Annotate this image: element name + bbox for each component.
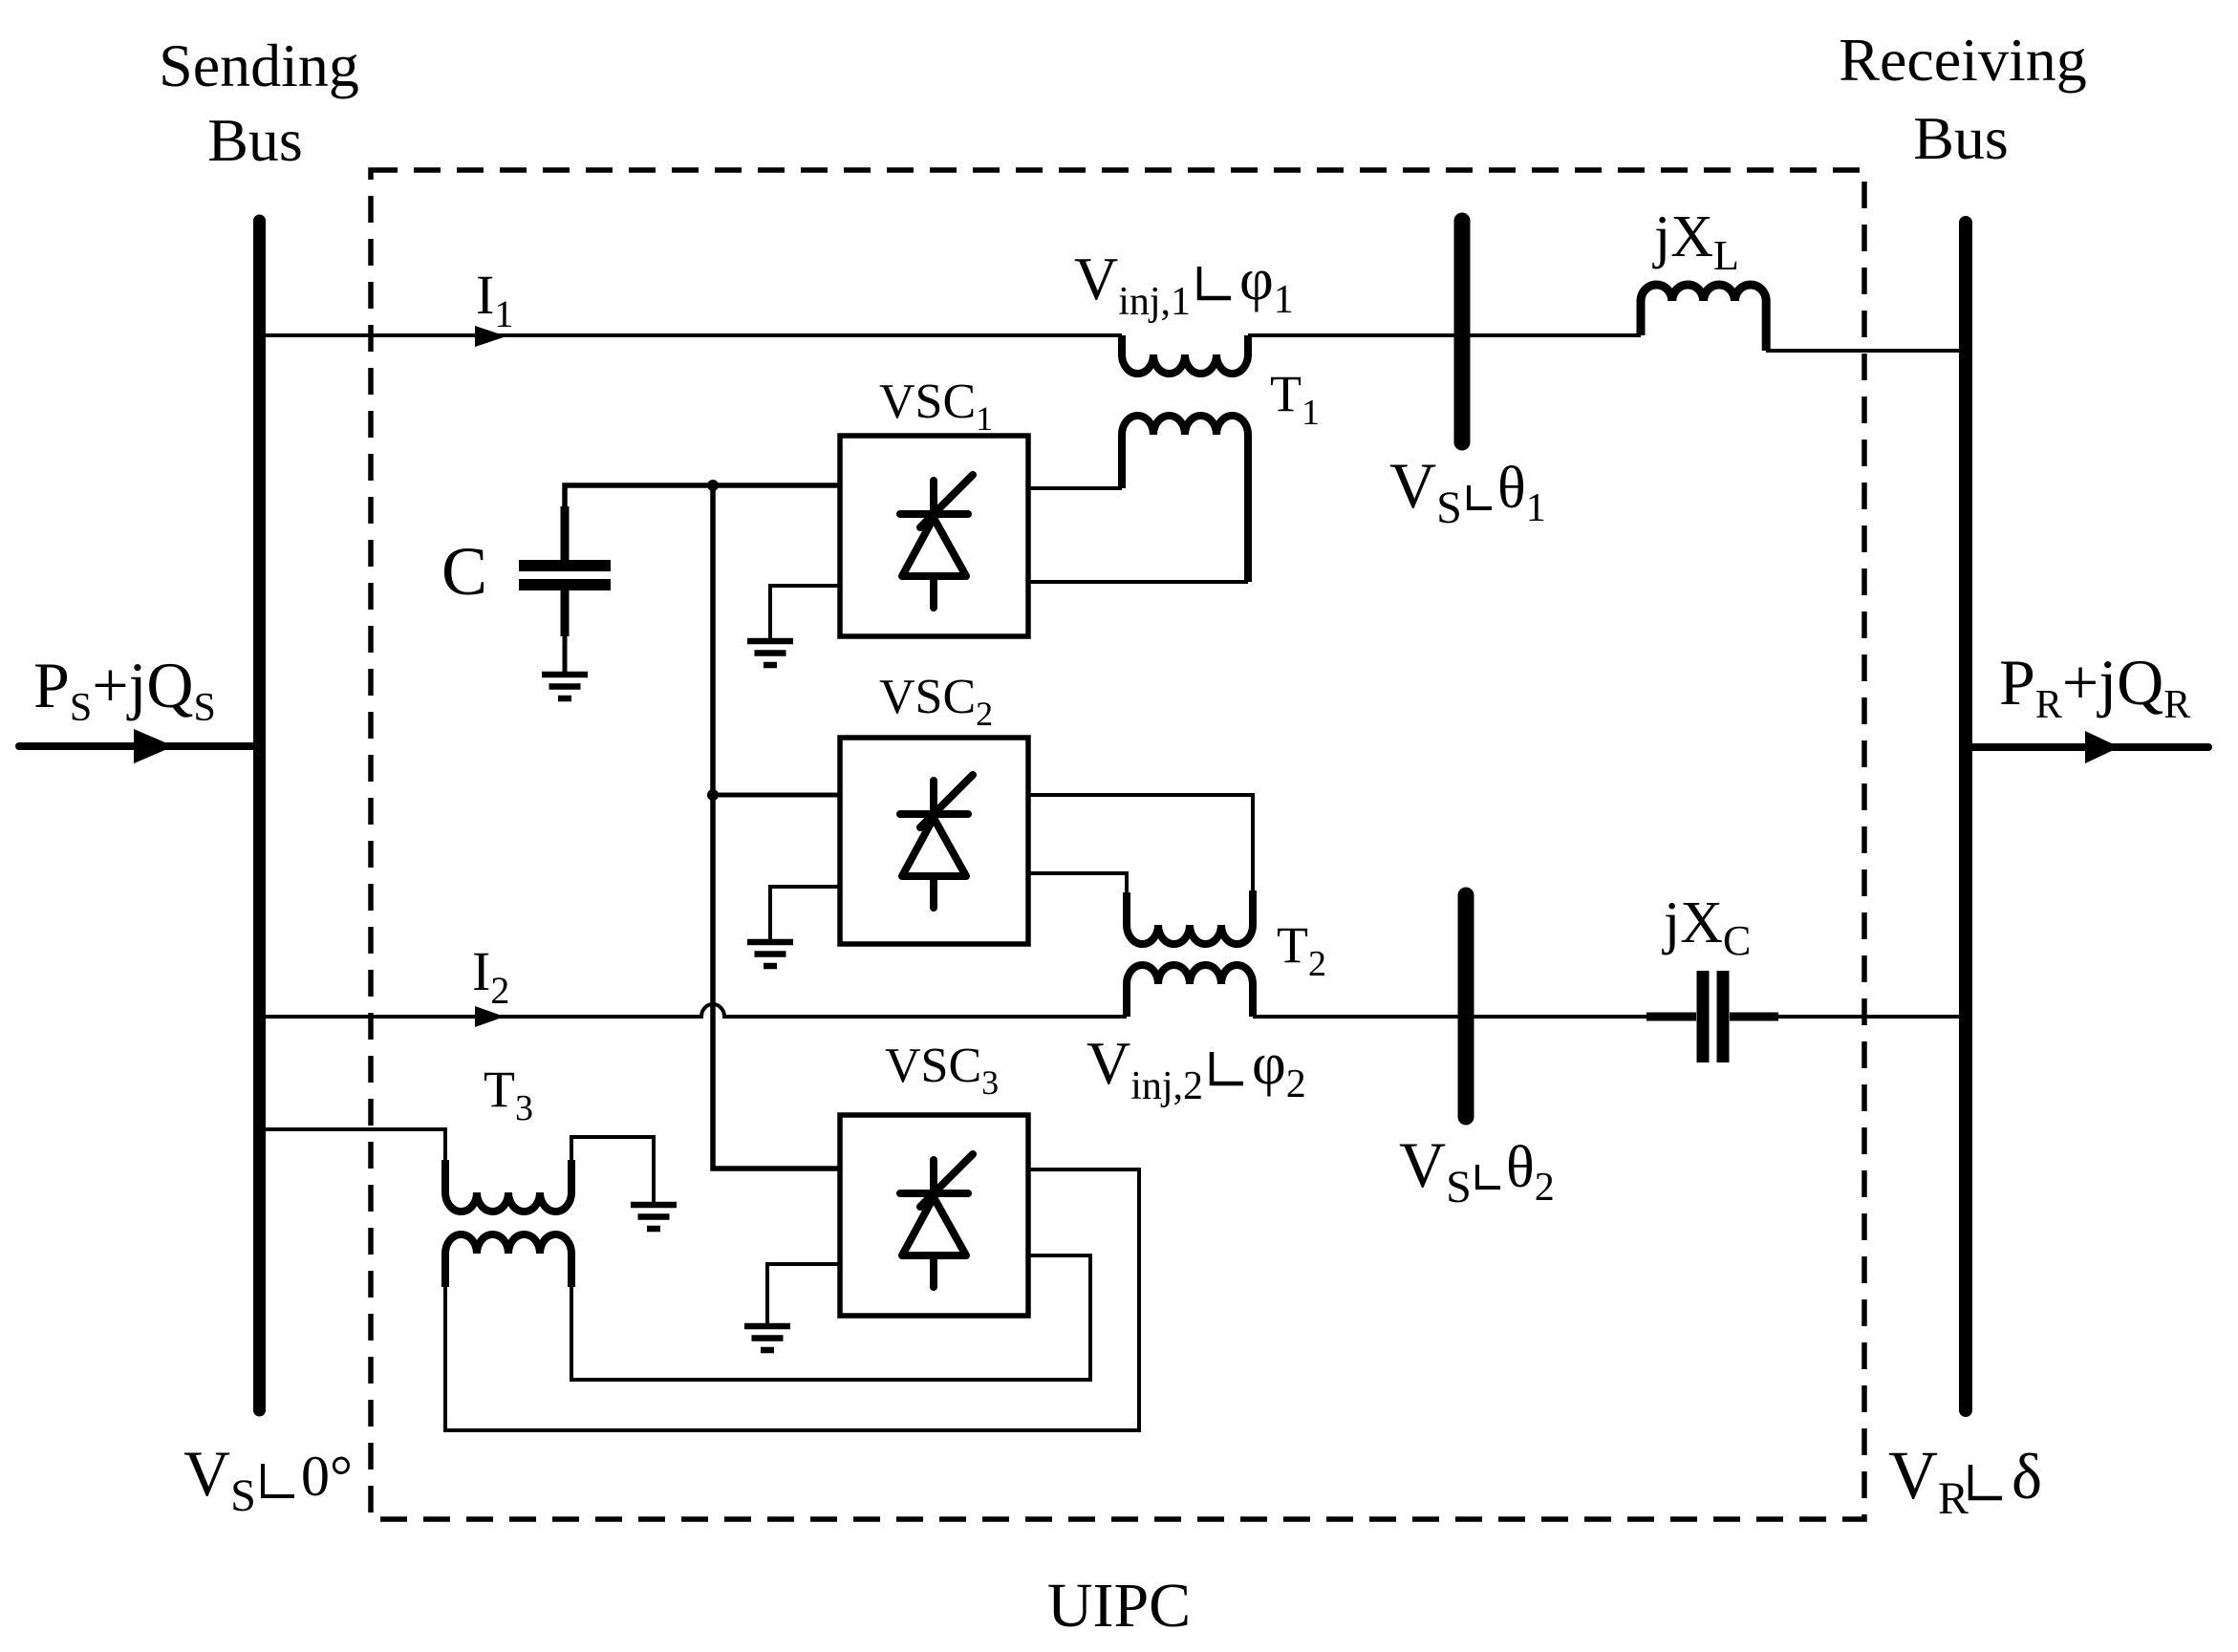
- capacitor C lower lead: [561, 590, 570, 636]
- wire T1 to jXL: [1248, 333, 1641, 337]
- junction node dot (VSC2 tap): [707, 789, 719, 801]
- svg-text:Sending: Sending: [159, 32, 359, 99]
- receiving bus bar: [1959, 223, 1972, 1410]
- arrowhead I2: [475, 1006, 505, 1027]
- label VS theta2: [1399, 1128, 1555, 1212]
- bus-voltage bar VS theta1: [1454, 221, 1471, 442]
- sending bus bar: [253, 221, 266, 1410]
- ground (VSC1 gate): [747, 641, 793, 665]
- ground (VSC2 gate): [747, 942, 793, 966]
- transformer T2 primary winding: [1127, 965, 1253, 1017]
- wire VSC2 top output to T2 secondary right leg: [1028, 795, 1253, 892]
- label Vinj,1 phi1: [1074, 245, 1294, 324]
- capacitor jXC thick leads: [1646, 1013, 1778, 1021]
- svg-text:Bus: Bus: [207, 106, 303, 174]
- svg-text:Bus: Bus: [1913, 104, 2009, 172]
- transformer T3 primary winding: [445, 1160, 571, 1212]
- wire dc tap to VSC2: [713, 793, 840, 798]
- label Vinj,2 phi2: [1087, 1029, 1306, 1108]
- junction node dot (dc bus top): [707, 480, 719, 491]
- label Sending Bus: [159, 32, 359, 174]
- label Receiving Bus: [1839, 26, 2086, 172]
- label VS theta1: [1389, 449, 1546, 533]
- UIPC dashed boundary box: [371, 170, 1864, 1519]
- svg-text:UIPC: UIPC: [1047, 1571, 1191, 1641]
- ground (VSC3 gate): [744, 1326, 790, 1350]
- transformer T2 secondary winding: [1127, 890, 1253, 944]
- VSC1 gate wire: [770, 586, 840, 638]
- VSC2 box: [840, 738, 1028, 944]
- svg-text:δ: δ: [2012, 1440, 2042, 1513]
- inductor jXL: [1641, 285, 1766, 351]
- capacitor C top wire to VSC1: [565, 485, 840, 560]
- bus-voltage bar VS theta2: [1458, 895, 1474, 1117]
- wire T2 to jXC: [1253, 1015, 1646, 1019]
- VSC3 gate wire: [767, 1264, 840, 1323]
- wire I2 (sending bus to T2, hop over dc line): [265, 1004, 1127, 1017]
- label VS 0deg (sending bus voltage): [183, 1437, 353, 1521]
- VSC1 box: [840, 436, 1028, 636]
- svg-text:C: C: [441, 533, 487, 610]
- wire VSC1 top output to T1 secondary: [1028, 486, 1122, 490]
- svg-text:Receiving: Receiving: [1839, 26, 2086, 94]
- VSC2 thyristor symbol: [900, 775, 973, 908]
- capacitor C plates: [519, 566, 611, 585]
- wire T3 primary to ground: [571, 1137, 654, 1202]
- wire jXL to receiving bus: [1766, 349, 1960, 353]
- dc bus vertical line (to VSC2, VSC3): [713, 485, 840, 1169]
- VSC3 thyristor symbol: [900, 1154, 973, 1287]
- arrowhead I1: [475, 326, 506, 347]
- P_S + jQ_S input arrow: [19, 729, 253, 763]
- svg-text:0°: 0°: [301, 1445, 353, 1508]
- transformer T1 primary winding: [1122, 335, 1248, 374]
- P_R + jQ_R output arrow: [1972, 731, 2208, 763]
- svg-text:PS+jQS: PS+jQS: [33, 649, 216, 730]
- svg-text:PR+jQR: PR+jQR: [1999, 646, 2190, 727]
- transformer T1 secondary winding: [1122, 416, 1248, 582]
- wire sending bus to T3: [265, 1129, 445, 1162]
- wire I1 (sending bus to T1): [265, 333, 1122, 337]
- VSC2 gate wire: [770, 887, 840, 939]
- label VR delta (receiving bus voltage): [1888, 1437, 2042, 1524]
- wire jXC to receiving bus: [1778, 1015, 1960, 1019]
- ground (capacitor C): [542, 675, 588, 698]
- wire T3 secondary right leg to VSC3 bottom output (inner loop): [571, 1255, 1090, 1380]
- VSC3 box: [840, 1115, 1028, 1316]
- ground (T3 primary): [631, 1205, 677, 1229]
- wire VSC1 bottom output to T1 secondary: [1028, 580, 1248, 584]
- VSC1 thyristor symbol: [900, 475, 973, 608]
- capacitor jXC plates: [1703, 971, 1723, 1062]
- wire VSC2 bottom output to T2 secondary left leg: [1028, 873, 1127, 894]
- wire T3 secondary left leg to VSC3 top output (outer loop): [445, 1169, 1139, 1430]
- transformer T3 secondary winding: [445, 1234, 571, 1287]
